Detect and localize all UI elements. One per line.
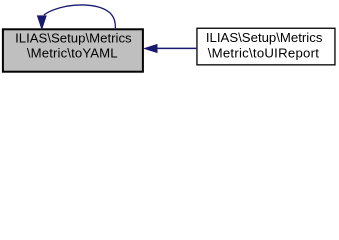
svg-text:ILIAS\Setup\Metrics: ILIAS\Setup\Metrics <box>206 30 323 45</box>
svg-text:\Metric\toYAML: \Metric\toYAML <box>27 46 118 61</box>
svg-text:\Metric\toUIReport: \Metric\toUIReport <box>208 45 320 60</box>
svg-text:ILIAS\Setup\Metrics: ILIAS\Setup\Metrics <box>15 30 132 45</box>
